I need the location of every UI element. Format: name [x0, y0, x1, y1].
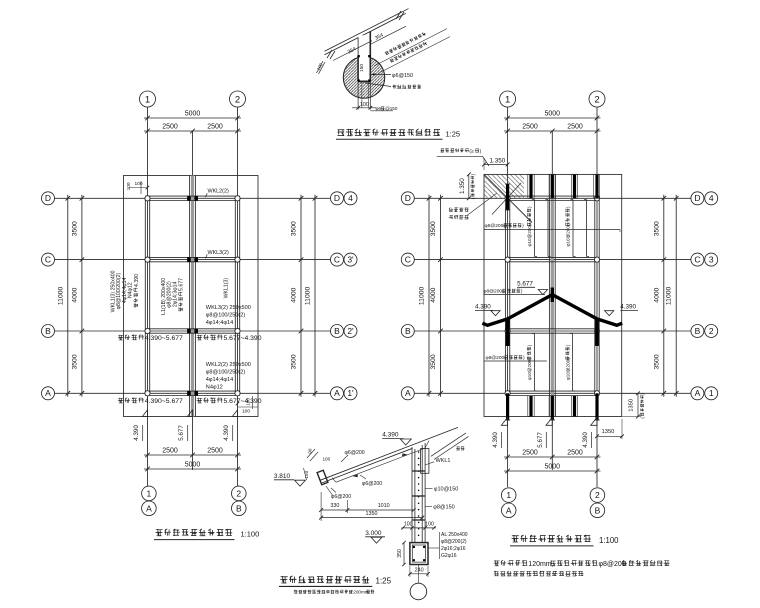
- svg-text:3500: 3500: [430, 354, 437, 369]
- elevation 4.390 below axis 1 (right plan): [492, 432, 502, 448]
- small dims at eave tip (eave detail): [304, 448, 331, 480]
- svg-text:4.390: 4.390: [134, 274, 140, 287]
- svg-text:1: 1: [505, 94, 510, 105]
- svg-text:100: 100: [425, 522, 434, 528]
- dimension 1.350 top (right plan): [482, 157, 509, 170]
- svg-text:φ6@150: φ6@150: [392, 73, 413, 79]
- svg-text:5000: 5000: [185, 110, 201, 117]
- svg-text:AL 250x400: AL 250x400: [441, 532, 468, 538]
- svg-text:4.390: 4.390: [620, 303, 636, 310]
- axis bubble pair D4 right (left plan): [331, 192, 358, 205]
- svg-text:11000: 11000: [419, 286, 426, 305]
- svg-text:2500: 2500: [162, 447, 178, 454]
- svg-text:2: 2: [236, 489, 241, 499]
- grid line axis B (left plan): [55, 330, 331, 332]
- rotated beam label WKL1(3) block (left plan): [111, 270, 140, 312]
- svg-text:100: 100: [126, 182, 132, 190]
- sloped dimension 354 left (gable detail): [333, 41, 372, 61]
- bold slab bars at top eave (right plan): [505, 174, 600, 210]
- svg-text:1010: 1010: [378, 503, 390, 509]
- axis bubble pair 2/B bottom (right plan): [590, 488, 605, 518]
- axis bubble pair 1/A bottom (right plan): [501, 488, 516, 518]
- svg-text:5000: 5000: [185, 461, 201, 468]
- grid line axis D (right plan): [414, 197, 691, 199]
- additional slab bars bay D-C (right plan): [532, 200, 589, 257]
- beam label WKL2(2) at row D (left plan): [206, 189, 229, 198]
- svg-text:@150: @150: [385, 106, 398, 111]
- svg-text:φ8@100/250(2): φ8@100/250(2): [206, 370, 246, 376]
- dimension 5000 top (left plan): [144, 110, 241, 120]
- svg-text:φ6@200: φ6@200: [345, 450, 365, 456]
- svg-text:3500: 3500: [71, 221, 78, 236]
- svg-text:φ8@100/250(2): φ8@100/250(2): [206, 313, 246, 319]
- upper-right leader lines (eave detail): [431, 433, 469, 460]
- dimension 11000 right chain (left plan): [305, 195, 318, 397]
- horizontal beams rows D C B A (right plan): [505, 196, 599, 395]
- svg-text:φ6@200: φ6@200: [362, 481, 382, 487]
- break marks on slope (gable detail): [327, 9, 409, 59]
- grid centre line (right plan): [551, 131, 553, 470]
- leader note sloped 2 (gable detail): [378, 37, 450, 74]
- title roof slab plan (right plan): [510, 535, 619, 546]
- dimension 100 100 at plate (eave detail): [401, 522, 436, 530]
- svg-text:WKL1(3): WKL1(3): [223, 278, 229, 299]
- svg-text:φ6@200: φ6@200: [331, 494, 351, 500]
- drainage pipe circle (eave detail): [410, 565, 427, 600]
- beam label block WKL3(2) 250x500 (left plan): [206, 305, 251, 326]
- axis bubble 1 top (right plan): [500, 91, 516, 107]
- svg-text:3500: 3500: [654, 221, 661, 236]
- grid line axis 2 (right plan): [596, 107, 598, 487]
- svg-text:φ8@200(2): φ8@200(2): [441, 539, 467, 545]
- svg-text:A: A: [45, 388, 51, 398]
- general note line 1 (right plan): [494, 560, 670, 568]
- column circles at axis intersections (left plan): [145, 196, 240, 396]
- dimension 2500/2500 bottom (left plan): [144, 447, 241, 457]
- dimension 100 at corner (left plan): [126, 181, 150, 194]
- svg-text:WKL3(2) 250x500: WKL3(2) 250x500: [206, 305, 251, 311]
- svg-text:2: 2: [235, 94, 240, 105]
- svg-text:100: 100: [135, 181, 143, 187]
- svg-text:4.390: 4.390: [382, 432, 399, 439]
- svg-text:3: 3: [709, 255, 714, 265]
- svg-text:2: 2: [595, 490, 600, 500]
- svg-text:A: A: [405, 388, 411, 398]
- column circles at axis intersections (right plan): [505, 196, 600, 396]
- svg-text:4000: 4000: [430, 287, 437, 302]
- leader phi6@150 (gable detail): [371, 73, 413, 79]
- svg-text:WKL1: WKL1: [436, 458, 451, 464]
- axis bubble pair A1 right (right plan): [691, 387, 718, 400]
- hanging plate lines (eave detail): [412, 443, 425, 543]
- dimension 3500/4000/3500 right chain (left plan): [291, 195, 304, 397]
- beam label WKL3(2) at row C (left plan): [206, 250, 229, 259]
- svg-text:1: 1: [145, 94, 150, 105]
- bold ridge and hip lines (right plan): [482, 288, 622, 347]
- svg-text:4: 4: [348, 193, 353, 203]
- rotated beam label WKL1(3) right cell (left plan): [223, 278, 229, 299]
- svg-text:100: 100: [242, 409, 250, 415]
- svg-text:5.677: 5.677: [179, 278, 185, 291]
- svg-text:φ8@200(: φ8@200(: [483, 289, 504, 295]
- elevation 5.677 below centre (right plan): [537, 432, 547, 448]
- elevation 3.810 (eave detail): [274, 473, 306, 486]
- leader phi8@150 (eave detail): [425, 504, 455, 510]
- hatched gable corner (right plan): [484, 174, 532, 222]
- svg-text:4: 4: [709, 193, 714, 203]
- bold slab bars at bottom eave (right plan): [505, 393, 600, 420]
- dimension 100 at bottom-right corner (left plan): [236, 396, 258, 415]
- roof level text below row A right cell (left plan): [197, 398, 262, 406]
- svg-text:2500: 2500: [522, 449, 538, 456]
- svg-text:N4φ12: N4φ12: [128, 282, 134, 298]
- rebar line at mid C-B (right plan): [483, 289, 545, 295]
- dimension 5000 bottom (left plan): [144, 461, 241, 471]
- svg-text:1350: 1350: [628, 399, 634, 412]
- svg-text:(≥: (≥: [469, 148, 474, 154]
- elevation 5.677 below centre (left plan): [178, 425, 188, 441]
- thin distribution lines top eave (right plan): [528, 174, 600, 198]
- svg-text:120mm,: 120mm,: [528, 561, 553, 568]
- axis bubble pair B2 right (right plan): [691, 325, 718, 338]
- slope marks on bottom eave (right plan): [501, 418, 597, 426]
- axis bubble D left (right plan): [401, 192, 414, 205]
- horizontal rebar line below row D (right plan): [484, 223, 620, 232]
- dimension 5000 top (right plan): [504, 110, 600, 120]
- svg-text:C: C: [334, 255, 340, 265]
- dimension 2500/2500 top (left plan): [144, 123, 241, 133]
- eave elevation 4.390 left (right plan): [475, 303, 500, 315]
- svg-text:5.677: 5.677: [537, 432, 544, 448]
- svg-text:1.350: 1.350: [490, 157, 506, 164]
- axis bubble A left (left plan): [42, 387, 55, 400]
- svg-text:200mm: 200mm: [353, 590, 368, 595]
- centre beam vertical (right plan): [549, 174, 555, 416]
- ridge elevation 5.677 (right plan): [517, 280, 548, 294]
- axis bubble C left (right plan): [401, 253, 414, 266]
- elevation 3.000 (eave detail): [365, 530, 385, 543]
- dimension 330/1010 (eave detail): [319, 492, 415, 521]
- rotated beam label L1(1B) block (left plan): [161, 278, 185, 315]
- grid line axis A (right plan): [414, 392, 691, 394]
- svg-text:3500: 3500: [654, 354, 661, 369]
- dimension 11000 left chain (right plan): [419, 195, 432, 397]
- beam label block WKL2(2) 250x500 (left plan): [206, 362, 251, 391]
- svg-text:φ6: φ6: [376, 106, 382, 111]
- dimension 1.350 left rotated (right plan): [459, 173, 475, 201]
- svg-text:2500: 2500: [162, 123, 178, 130]
- slot depth text 150 (gable detail): [359, 64, 365, 72]
- plate rebar dots and stirrups (eave detail): [412, 451, 425, 536]
- svg-text:A: A: [146, 503, 152, 513]
- dimension 2500/2500 top (right plan): [504, 123, 600, 133]
- grid line axis D (left plan): [55, 197, 331, 199]
- beam section label block (eave detail): [428, 532, 468, 559]
- svg-text:φ10@200(: φ10@200(: [565, 224, 570, 246]
- svg-text:150: 150: [359, 64, 365, 72]
- extension lines below slot (gable detail): [358, 82, 370, 110]
- svg-text:B: B: [236, 503, 242, 513]
- rotated label bay B-A left (right plan): [527, 344, 532, 380]
- rotated label bay D-C left (right plan): [527, 206, 532, 247]
- vertical beams on axis 1 and 2 (left plan): [145, 198, 239, 393]
- svg-text:1:100: 1:100: [599, 536, 619, 545]
- svg-text:A: A: [506, 505, 512, 515]
- dimension 11000 left chain (left plan): [57, 195, 70, 397]
- svg-text:11000: 11000: [666, 286, 673, 305]
- svg-text:A: A: [334, 388, 340, 398]
- svg-text:D: D: [45, 193, 51, 203]
- leader phi6@200 upper (eave detail): [341, 450, 365, 462]
- svg-text:4000: 4000: [291, 287, 298, 302]
- svg-text:2500: 2500: [522, 123, 538, 130]
- svg-text:D: D: [334, 193, 340, 203]
- svg-text:100: 100: [323, 456, 331, 461]
- svg-text:2: 2: [709, 326, 714, 336]
- grid centre line (left plan): [192, 131, 194, 470]
- svg-text:WKL2(2) 250x500: WKL2(2) 250x500: [206, 362, 251, 368]
- horizontal rebar line below row B (right plan): [485, 355, 547, 361]
- elevation 4.390 below axis 1 (left plan): [133, 425, 143, 441]
- svg-text:3': 3': [347, 255, 354, 265]
- svg-text:D: D: [405, 193, 411, 203]
- svg-text:B: B: [45, 326, 51, 336]
- svg-text:3.000: 3.000: [365, 530, 382, 537]
- axis bubble pair C3' right (left plan): [331, 253, 358, 266]
- svg-text:1:100: 1:100: [241, 530, 260, 539]
- svg-text:4φ14;4φ14: 4φ14;4φ14: [206, 377, 233, 383]
- additional slab bars bay B-A (right plan): [532, 334, 575, 392]
- detail bubble hatched circle (gable detail): [343, 57, 384, 98]
- general note line 2 (right plan): [494, 571, 584, 576]
- svg-text:φ8@200: φ8@200: [599, 561, 626, 568]
- dimension 1350 (eave detail): [319, 511, 424, 519]
- parapet slot (gable detail): [358, 31, 371, 81]
- svg-text:3.810: 3.810: [274, 473, 291, 480]
- sloped dimension 354 right (gable detail): [371, 26, 406, 44]
- leader phi10@150 (eave detail): [425, 486, 458, 492]
- svg-text:4.390: 4.390: [582, 432, 589, 448]
- svg-text:1:25: 1:25: [446, 130, 461, 139]
- eave tip block (eave detail): [317, 470, 333, 495]
- roof level text below row A left cell (left plan): [118, 398, 183, 406]
- grid line axis C (left plan): [55, 259, 331, 261]
- axis bubble 2 top (left plan): [230, 91, 246, 107]
- svg-text:4.390: 4.390: [475, 303, 491, 310]
- svg-text:B: B: [595, 505, 601, 515]
- grid line axis A (left plan): [55, 392, 331, 394]
- svg-text:3500: 3500: [291, 221, 298, 236]
- svg-text:150: 150: [304, 470, 309, 478]
- grid line axis B (right plan): [414, 330, 691, 332]
- dimension 350 (eave detail): [397, 541, 406, 566]
- svg-text:3500: 3500: [430, 221, 437, 236]
- svg-text:2500: 2500: [207, 447, 223, 454]
- rotated label bay D-C right (right plan): [565, 206, 570, 247]
- centre beam L1 vertical (left plan): [190, 176, 196, 417]
- svg-text:1: 1: [506, 490, 511, 500]
- svg-text:4000: 4000: [71, 287, 78, 302]
- svg-text:φ10@200(: φ10@200(: [565, 358, 570, 380]
- elevation 4.390 (eave detail): [382, 432, 411, 445]
- svg-text:4φ14;4φ14: 4φ14;4φ14: [206, 320, 233, 326]
- leader phi6@200 lower (eave detail): [331, 488, 351, 500]
- leader note sloped 1 (gable detail): [374, 29, 447, 66]
- leader phi6@200 middle (eave detail): [360, 475, 382, 487]
- axis bubble pair B2' right (left plan): [331, 325, 358, 338]
- svg-text:4.390: 4.390: [133, 425, 140, 441]
- svg-text:5000: 5000: [545, 110, 561, 117]
- sloped roof slab lines (eave detail): [320, 427, 458, 483]
- svg-text:100: 100: [246, 398, 252, 406]
- svg-text:2500: 2500: [207, 123, 223, 130]
- axis bubble pair C3 right (right plan): [691, 253, 718, 266]
- slope marks on eave line (left plan): [142, 410, 237, 417]
- svg-text:φ10@150: φ10@150: [434, 486, 458, 492]
- svg-text:B: B: [695, 326, 701, 336]
- svg-text:1350: 1350: [602, 429, 615, 435]
- title roof beam plan (left plan): [154, 529, 259, 540]
- rotated label bay B-A right (right plan): [565, 344, 570, 380]
- svg-text:2: 2: [594, 94, 599, 105]
- svg-text:4.390~5.677: 4.390~5.677: [145, 398, 183, 405]
- svg-text:φ8@200(: φ8@200(: [486, 355, 507, 361]
- axis bubble B left (right plan): [401, 325, 414, 338]
- svg-text:330: 330: [330, 503, 339, 509]
- svg-text:100: 100: [404, 522, 413, 528]
- svg-text:1:25: 1:25: [376, 577, 392, 586]
- axis bubble pair 1/A bottom (left plan): [142, 486, 157, 515]
- svg-text:2': 2': [347, 326, 354, 336]
- svg-text:1: 1: [147, 489, 152, 499]
- svg-text:11000: 11000: [57, 286, 64, 305]
- roof slab slope lines (gable detail): [325, 11, 404, 54]
- svg-text:2500: 2500: [567, 123, 583, 130]
- roof outline rectangle (right plan): [484, 174, 622, 416]
- svg-text:5.677~4.390: 5.677~4.390: [224, 335, 262, 342]
- svg-text:4.390: 4.390: [492, 432, 499, 448]
- small sloped dimension left (gable detail): [316, 61, 325, 74]
- axis bubble B left (left plan): [42, 325, 55, 338]
- svg-text:1350: 1350: [366, 511, 378, 517]
- grid line axis 2 (left plan): [237, 107, 239, 486]
- column blocks on centre beam (left plan): [187, 196, 197, 395]
- svg-text:2φ14;3φ14: 2φ14;3φ14: [172, 282, 178, 308]
- dimension 3500/4000/3500 right chain (right plan): [654, 195, 667, 397]
- roof level text below row B right cell (left plan): [197, 335, 262, 343]
- svg-text:B: B: [334, 326, 340, 336]
- title gable detail: [336, 129, 460, 139]
- title eave detail: [279, 576, 392, 595]
- dimension 2500/2500 bottom (right plan): [504, 449, 600, 459]
- svg-text:5.677~4.390: 5.677~4.390: [224, 398, 262, 405]
- elevation 4.390 below axis 2 (left plan): [223, 425, 233, 441]
- svg-text:11000: 11000: [305, 286, 312, 305]
- svg-text:φ8@150: φ8@150: [433, 504, 454, 510]
- svg-text:5.677: 5.677: [178, 425, 185, 441]
- svg-text:3500: 3500: [71, 354, 78, 369]
- grid line axis 1 (left plan): [147, 107, 149, 486]
- leader bottom phi6@150 (gable detail): [370, 106, 398, 111]
- grid line axis C (right plan): [414, 259, 691, 261]
- beam section AL rectangle (eave detail): [410, 543, 428, 565]
- vertical beams on axis 1 and 2 (right plan): [505, 198, 599, 393]
- svg-text:WKL3(2): WKL3(2): [208, 250, 229, 256]
- svg-text:φ8@200(: φ8@200(: [485, 223, 506, 229]
- leader overhang note (right plan): [437, 148, 489, 166]
- dimension 240 (eave detail): [408, 566, 430, 577]
- axis bubble pair D4 right (right plan): [691, 192, 718, 205]
- svg-text:5000: 5000: [545, 463, 561, 470]
- svg-text:G2φ16: G2φ16: [441, 553, 457, 559]
- svg-text:4.390~5.677: 4.390~5.677: [145, 335, 183, 342]
- leader outer edge note (gable detail): [365, 83, 421, 89]
- svg-text:240: 240: [415, 567, 424, 573]
- axis bubble C left (left plan): [42, 253, 55, 266]
- svg-text:5.677: 5.677: [517, 280, 533, 287]
- axis bubble A left (right plan): [401, 387, 414, 400]
- svg-text:1.350: 1.350: [459, 178, 466, 194]
- axis bubble pair A1' right (left plan): [331, 387, 358, 400]
- dimension 100 below (gable detail): [352, 102, 377, 110]
- roof outline rectangle (left plan): [124, 176, 259, 417]
- dimension 1350 right vertical (right plan): [622, 391, 645, 418]
- svg-text:1: 1: [709, 388, 714, 398]
- svg-text:2φ16;2φ16: 2φ16;2φ16: [441, 546, 466, 552]
- svg-text:4000: 4000: [654, 287, 661, 302]
- beam WKL1 outline (eave detail): [421, 449, 451, 474]
- svg-text:100: 100: [360, 102, 369, 108]
- dimension 5000 bottom (right plan): [504, 463, 600, 473]
- svg-text:4.390: 4.390: [223, 425, 230, 441]
- roof level text below row B left cell (left plan): [118, 335, 183, 343]
- svg-text:φ10@200(: φ10@200(: [527, 224, 532, 246]
- svg-text:A: A: [695, 388, 701, 398]
- svg-text:C: C: [405, 255, 411, 265]
- dimension 1350 bottom horizontal (right plan): [595, 419, 624, 439]
- axis bubble 2 top (right plan): [589, 91, 605, 107]
- svg-text:N4φ12: N4φ12: [206, 385, 223, 391]
- grid line axis 1 (right plan): [507, 107, 509, 487]
- axis bubble pair 2/B bottom (left plan): [232, 486, 247, 515]
- leader radial rebar note (right plan): [449, 193, 497, 219]
- axis bubble D left (left plan): [42, 192, 55, 205]
- elevation 4.390 below axis 2 (right plan): [582, 432, 592, 448]
- eave elevation 4.390 right (right plan): [605, 303, 639, 315]
- svg-text:350: 350: [397, 549, 403, 558]
- svg-text:C: C: [45, 255, 51, 265]
- svg-text:3500: 3500: [291, 354, 298, 369]
- dimension 11000 right chain (right plan): [666, 195, 679, 397]
- svg-text:C: C: [694, 255, 700, 265]
- dimension 3500/4000/3500 left chain (left plan): [71, 195, 84, 397]
- svg-text:D: D: [694, 193, 700, 203]
- horizontal beams rows D C B A (left plan): [145, 196, 239, 395]
- svg-text:2500: 2500: [567, 449, 583, 456]
- svg-text:WKL2(2): WKL2(2): [208, 189, 229, 195]
- svg-text:B: B: [405, 326, 411, 336]
- thin distribution lines bottom eave (right plan): [528, 396, 578, 417]
- svg-text:1': 1': [347, 388, 354, 398]
- slab rebar line with arrows (eave detail): [332, 441, 429, 483]
- dimension 3500/4000/3500 left chain (right plan): [430, 195, 443, 397]
- axis bubble 1 top (left plan): [140, 91, 156, 107]
